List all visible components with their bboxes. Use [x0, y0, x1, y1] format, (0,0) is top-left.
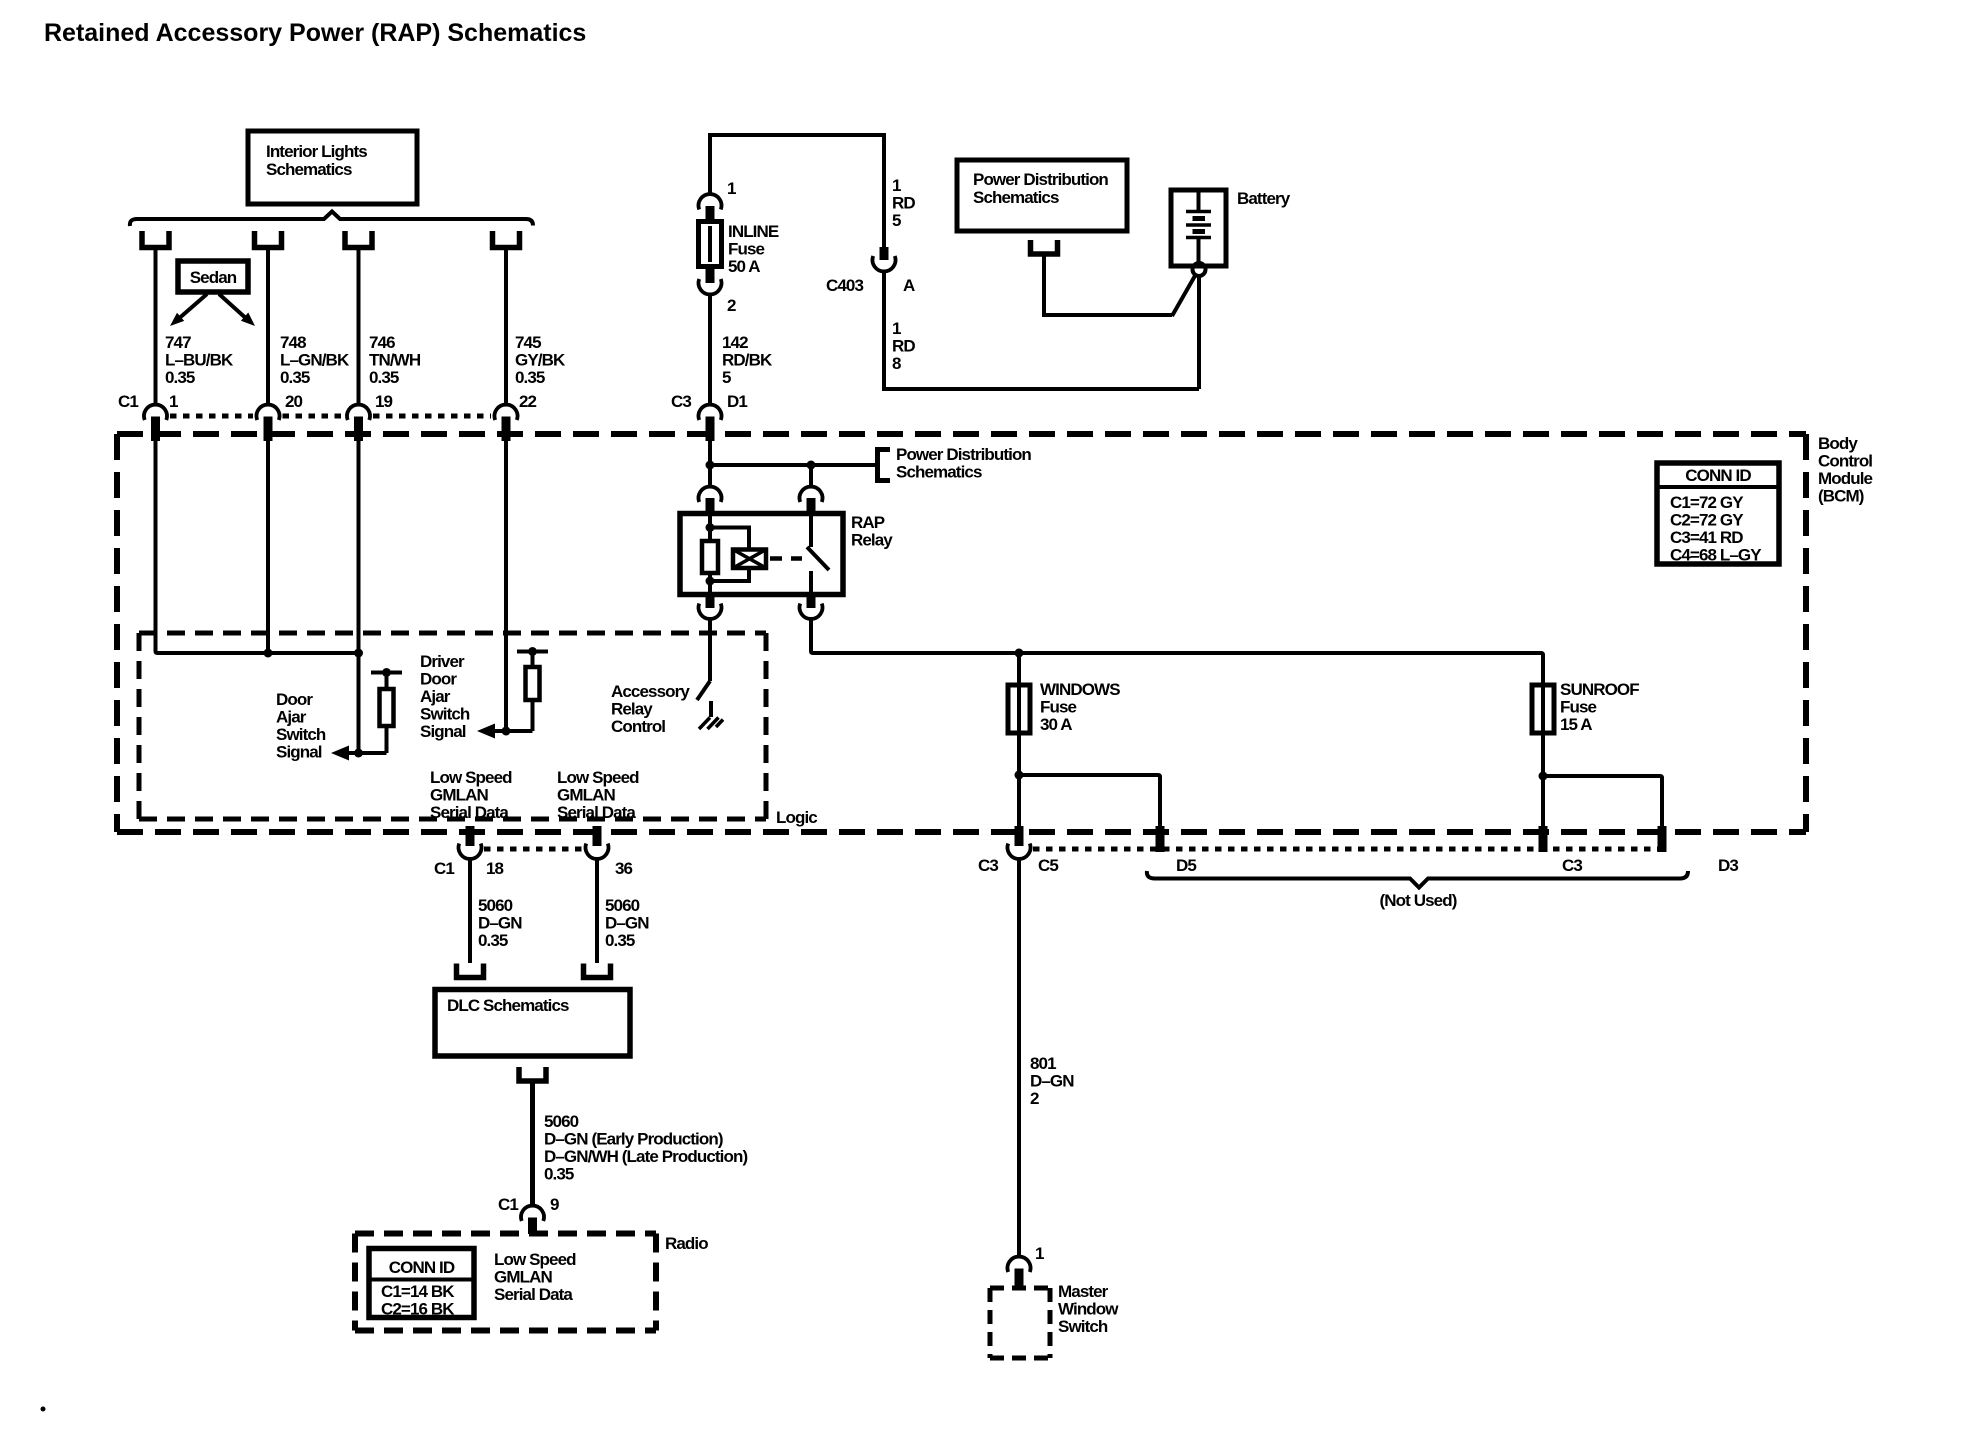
svg-text:Sedan: Sedan — [190, 268, 237, 287]
svg-text:50 A: 50 A — [728, 257, 760, 276]
junction node at 710,465 — [706, 461, 715, 470]
brace under Interior Lights box — [130, 212, 533, 227]
svg-text:GMLAN: GMLAN — [557, 786, 615, 805]
svg-text:1: 1 — [892, 176, 901, 195]
svg-text:RD: RD — [892, 194, 915, 213]
BCM dashed box top edge — [117, 431, 1806, 437]
svg-text:Fuse: Fuse — [1560, 698, 1597, 717]
wire branch to D5 — [1019, 775, 1160, 831]
bracket for Power Distribution Schematics — [878, 450, 891, 481]
Radio dashed box left edge — [352, 1234, 358, 1331]
svg-text:Low Speed: Low Speed — [430, 768, 512, 787]
connector C5 cup — [1008, 844, 1031, 859]
wire 142 RD/BK — [708, 294, 712, 405]
Master Window Switch dashed box bottom edge — [990, 1356, 1050, 1361]
accessory relay control switch blade — [697, 681, 710, 700]
connector C1 pin 1 stub — [151, 417, 160, 442]
inline fuse F1 50A body — [699, 222, 722, 267]
wire 5060 right — [595, 859, 599, 963]
relay switch pin half-circle — [799, 487, 822, 502]
svg-text:2: 2 — [727, 296, 736, 315]
svg-text:L–GN/BK: L–GN/BK — [280, 351, 350, 370]
label wire 745 GY/BK 0.35 — [515, 333, 566, 387]
relay switch output cup — [799, 604, 822, 619]
label Driver Door Ajar Switch Signal — [420, 652, 470, 741]
windows fuse F2 body — [1008, 685, 1030, 733]
wire branch to D3 — [1543, 776, 1662, 831]
svg-text:22: 22 — [519, 392, 537, 411]
svg-text:5060: 5060 — [544, 1112, 579, 1131]
svg-text:0.35: 0.35 — [515, 368, 545, 387]
svg-text:1: 1 — [892, 319, 901, 338]
label Low Speed GMLAN Serial Data (right) — [557, 768, 639, 822]
wire accessory relay control — [708, 619, 712, 681]
wire from C3 D1 to relay — [708, 436, 712, 487]
svg-text:TN/WH: TN/WH — [369, 351, 421, 370]
svg-text:1: 1 — [727, 179, 736, 198]
wire 5060 to radio — [530, 1081, 535, 1205]
svg-text:2: 2 — [1030, 1089, 1039, 1108]
RAP relay K1 box — [680, 514, 843, 595]
connector plug terminal 22 (Interior Lights) — [493, 231, 520, 248]
svg-text:Signal: Signal — [276, 743, 322, 762]
svg-text:A: A — [903, 276, 915, 295]
svg-text:Schematics: Schematics — [896, 463, 982, 482]
relay resistor — [702, 541, 718, 573]
svg-text:Master: Master — [1058, 1282, 1109, 1301]
Radio dashed box top edge — [355, 1231, 656, 1237]
Master Window Switch dashed box right edge — [1048, 1288, 1053, 1358]
connector C3 pin D1 half-circle — [699, 405, 722, 420]
svg-text:D1: D1 — [727, 392, 747, 411]
svg-text:C1: C1 — [434, 859, 454, 878]
svg-text:5: 5 — [892, 211, 901, 230]
relay coil wire bottom — [708, 573, 712, 595]
svg-text:D5: D5 — [1176, 856, 1196, 875]
connector plug below Power Distribution box — [1031, 240, 1058, 254]
svg-text:8: 8 — [892, 354, 901, 373]
svg-text:Interior Lights: Interior Lights — [266, 142, 367, 161]
label Power Distribution Schematics (inside BCM) — [896, 445, 1031, 482]
svg-text:Ajar: Ajar — [420, 687, 451, 706]
svg-text:Relay: Relay — [851, 531, 893, 550]
Master Window Switch dashed box top edge — [990, 1286, 1050, 1291]
battery switch blade — [1172, 274, 1196, 316]
box: Interior Lights Schematics — [248, 131, 417, 204]
Logic dashed box right edge — [764, 633, 769, 819]
svg-text:Low Speed: Low Speed — [557, 768, 639, 787]
svg-text:C1=72 GY: C1=72 GY — [1670, 493, 1744, 512]
wire from Power Distribution plug to battery switch — [1044, 254, 1172, 315]
wire 801 D-GN to master window switch — [1017, 859, 1021, 1256]
svg-text:D–GN (Early Production): D–GN (Early Production) — [544, 1130, 723, 1149]
connector half-circle above inline fuse — [699, 194, 722, 209]
stub below inline fuse — [706, 266, 715, 283]
relay actuation dashed link — [770, 556, 802, 561]
connector plug terminal 1 (Interior Lights) — [142, 231, 169, 248]
ground (chassis) — [699, 718, 723, 730]
resistor R1 (door ajar pull-up) — [359, 668, 403, 753]
stray period mark — [41, 1407, 46, 1412]
label Low Speed GMLAN Serial Data (radio) — [494, 1250, 576, 1304]
wire 746 inside BCM — [357, 436, 361, 753]
svg-text:Retained Accessory Power (RAP): Retained Accessory Power (RAP) Schematic… — [44, 19, 586, 47]
svg-text:D3: D3 — [1718, 856, 1738, 875]
sunroof fuse F3 body — [1532, 685, 1554, 733]
svg-text:GY/BK: GY/BK — [515, 351, 566, 370]
svg-text:Radio: Radio — [665, 1234, 708, 1253]
connector C1 pin 19 half-circle — [347, 405, 370, 420]
label 5060 D-GN 0.35 (right) — [605, 896, 649, 950]
svg-text:1: 1 — [169, 392, 178, 411]
label INLINE Fuse 50 A — [728, 222, 779, 276]
door ajar switch signal arrow — [331, 746, 359, 761]
resistor R2 (driver door ajar pull-up) — [506, 647, 548, 731]
connector C1 pin 1 half-circle — [144, 405, 167, 420]
svg-text:D–GN: D–GN — [605, 914, 649, 933]
label wire 1 RD 8 — [892, 319, 915, 373]
label wire 747 L-BU/BK 0.35 — [165, 333, 234, 387]
svg-text:Battery: Battery — [1237, 189, 1291, 208]
label Master Window Switch — [1058, 1282, 1119, 1336]
connector C1 pin 9 half-circle — [521, 1206, 544, 1221]
svg-text:GMLAN: GMLAN — [494, 1268, 552, 1287]
relay coil link bottom — [710, 568, 749, 582]
svg-text:Driver: Driver — [420, 652, 465, 671]
wire from C403 to battery — [884, 271, 1199, 389]
junction node driver door ajar — [502, 727, 511, 736]
svg-text:C2=72 GY: C2=72 GY — [1670, 511, 1744, 530]
svg-text:Switch: Switch — [276, 725, 326, 744]
wire from relay switch to fuses rail — [811, 619, 1543, 685]
connector C1 pin 20 stub — [264, 417, 273, 442]
svg-text:(Not Used): (Not Used) — [1380, 891, 1457, 910]
svg-text:D–GN: D–GN — [1030, 1072, 1074, 1091]
driver door ajar switch signal arrow — [477, 724, 506, 739]
wire 747 (top) — [154, 247, 158, 405]
svg-text:15 A: 15 A — [1560, 715, 1592, 734]
Logic dashed box left edge — [137, 633, 142, 819]
wire 748 (top) — [266, 247, 270, 405]
svg-text:RD: RD — [892, 337, 915, 356]
wire branch to Power Distribution Schematics (inside BCM) — [710, 463, 877, 467]
svg-text:Fuse: Fuse — [728, 240, 765, 259]
label Sedan — [178, 261, 248, 292]
connector D5 stub — [1156, 826, 1165, 852]
svg-text:Door: Door — [276, 690, 313, 709]
svg-text:C3=41 RD: C3=41 RD — [1670, 528, 1743, 547]
svg-text:C3: C3 — [978, 856, 998, 875]
svg-text:C2=16 BK: C2=16 BK — [381, 1300, 455, 1319]
wire 747 inside BCM — [156, 436, 359, 653]
svg-text:Body: Body — [1818, 434, 1858, 453]
svg-text:Schematics: Schematics — [973, 188, 1059, 207]
label wire 746 TN/WH 0.35 — [369, 333, 421, 387]
wire 745 inside BCM — [504, 436, 508, 731]
wire 745 (top) — [504, 247, 508, 405]
svg-text:747: 747 — [165, 333, 191, 352]
battery terminal circle — [1193, 263, 1206, 276]
connector pin 36 stub — [593, 826, 602, 846]
junction node sunroof branch — [1539, 772, 1548, 781]
label RAP Relay — [851, 513, 893, 550]
connector pin 36 cup — [586, 844, 609, 859]
svg-text:Signal: Signal — [420, 722, 466, 741]
svg-text:C3: C3 — [1562, 856, 1582, 875]
svg-text:18: 18 — [486, 859, 504, 878]
svg-text:746: 746 — [369, 333, 395, 352]
svg-text:C4=68 L–GY: C4=68 L–GY — [1670, 546, 1762, 565]
svg-text:0.35: 0.35 — [544, 1165, 574, 1184]
box: DLC Schematics — [435, 990, 630, 1057]
svg-text:Power Distribution: Power Distribution — [896, 445, 1031, 464]
svg-text:DLC Schematics: DLC Schematics — [447, 996, 569, 1015]
dotted connector line segment 20-19 — [283, 414, 345, 419]
label Door Ajar Switch Signal — [276, 690, 326, 762]
BCM dashed box left edge — [114, 434, 120, 832]
relay coil box with X — [733, 550, 766, 569]
svg-text:D–GN/WH (Late Production): D–GN/WH (Late Production) — [544, 1147, 747, 1166]
connector C1 pin 20 half-circle — [256, 405, 279, 420]
svg-text:Control: Control — [1818, 452, 1872, 471]
connector plug into DLC (left) — [457, 964, 484, 978]
svg-text:Module: Module — [1818, 469, 1873, 488]
accessory relay control lower stub — [709, 701, 713, 717]
svg-text:Schematics: Schematics — [266, 160, 352, 179]
junction node windows branch — [1015, 771, 1024, 780]
relay switch pin stub — [807, 498, 816, 514]
wire below sunroof fuse — [1541, 733, 1545, 831]
svg-text:20: 20 — [285, 392, 303, 411]
dotted connector line bottom right — [1033, 847, 1666, 852]
label wire 748 L-GN/BK 0.35 — [280, 333, 350, 387]
wire 746 (top) — [357, 247, 361, 405]
connector C1 pin 18 cup — [459, 844, 482, 859]
junction node rail/windows fuse — [1015, 649, 1024, 658]
svg-text:D–GN: D–GN — [478, 914, 522, 933]
relay coil link top — [710, 528, 749, 550]
dotted connector line segment 1-20 — [170, 414, 253, 419]
relay coil pin half-circle — [699, 487, 722, 502]
connector pin 1 half-circle (master window switch) — [1008, 1257, 1031, 1272]
svg-text:CONN ID: CONN ID — [1685, 466, 1751, 485]
connector C3 stub (sunroof) — [1539, 826, 1548, 852]
svg-text:9: 9 — [550, 1195, 559, 1214]
svg-text:GMLAN: GMLAN — [430, 786, 488, 805]
svg-text:(BCM): (BCM) — [1818, 487, 1864, 506]
wire from inline fuse top to battery branch — [710, 135, 884, 247]
svg-text:745: 745 — [515, 333, 541, 352]
connector plug into DLC (right) — [584, 964, 611, 978]
label wire 142 RD/BK 5 — [722, 333, 773, 387]
relay switch output stub — [807, 594, 816, 608]
connector pin 1 stub (master window switch) — [1015, 1269, 1024, 1289]
relay junction bottom — [706, 577, 715, 586]
svg-text:Ajar: Ajar — [276, 708, 307, 727]
battery G1 — [1171, 190, 1226, 266]
svg-text:RD/BK: RD/BK — [722, 351, 773, 370]
Logic dashed box bottom edge — [139, 817, 766, 822]
svg-text:142: 142 — [722, 333, 748, 352]
svg-text:C3: C3 — [671, 392, 691, 411]
wire below windows fuse — [1017, 733, 1021, 831]
svg-text:0.35: 0.35 — [280, 368, 310, 387]
svg-text:801: 801 — [1030, 1054, 1056, 1073]
relay switch lower wire — [809, 571, 813, 595]
connector C403 cup — [873, 256, 896, 271]
junction node door ajar — [354, 749, 363, 758]
svg-text:Power Distribution: Power Distribution — [973, 170, 1108, 189]
connector C403 stub — [880, 247, 889, 260]
CONN ID table (BCM) — [1657, 463, 1779, 565]
brace (Not Used) — [1147, 871, 1688, 888]
svg-text:Switch: Switch — [1058, 1317, 1108, 1336]
svg-text:19: 19 — [375, 392, 393, 411]
label SUNROOF Fuse 15 A — [1560, 680, 1639, 734]
svg-text:5: 5 — [722, 368, 731, 387]
relay switch blade — [807, 547, 829, 570]
relay coil wire top — [708, 514, 712, 541]
arrow from Sedan to wire 747 — [170, 294, 207, 326]
svg-text:0.35: 0.35 — [165, 368, 195, 387]
stub above inline fuse — [706, 206, 715, 222]
connector plug below DLC box — [519, 1067, 546, 1081]
dotted connector line segment 19-22 — [373, 414, 491, 419]
svg-text:C1: C1 — [498, 1195, 518, 1214]
svg-text:INLINE: INLINE — [728, 222, 779, 241]
wire 5060 left — [468, 859, 472, 963]
relay coil pin stub — [706, 498, 715, 514]
relay junction top — [706, 523, 715, 532]
connector plug terminal 20 (Interior Lights) — [255, 231, 282, 248]
connector C1 pin 22 stub — [502, 417, 511, 442]
connector plug terminal 19 (Interior Lights) — [345, 231, 372, 248]
svg-text:0.35: 0.35 — [605, 931, 635, 950]
svg-text:Serial Data: Serial Data — [494, 1285, 573, 1304]
svg-text:Relay: Relay — [611, 700, 653, 719]
Logic dashed box top edge — [139, 631, 766, 636]
label 5060 D-GN 0.35 (left) — [478, 896, 522, 950]
relay switch contact wire — [809, 514, 813, 547]
svg-text:748: 748 — [280, 333, 306, 352]
svg-text:Low Speed: Low Speed — [494, 1250, 576, 1269]
svg-text:C1=14 BK: C1=14 BK — [381, 1282, 455, 1301]
junction node at 811,465 — [807, 461, 816, 470]
Radio dashed box right edge — [653, 1234, 659, 1331]
svg-text:Accessory: Accessory — [611, 682, 690, 701]
connector C3 pin D1 stub — [706, 417, 715, 442]
connector C1 pin 19 stub — [354, 417, 363, 442]
label Low Speed GMLAN Serial Data (left) — [430, 768, 512, 822]
box: Power Distribution Schematics (top) — [957, 160, 1127, 231]
svg-text:Window: Window — [1058, 1300, 1119, 1319]
svg-text:RAP: RAP — [851, 513, 885, 532]
connector cup below inline fuse — [699, 279, 722, 294]
connector C5 stub (windows) — [1015, 826, 1024, 846]
svg-text:Control: Control — [611, 717, 665, 736]
svg-text:30 A: 30 A — [1040, 715, 1072, 734]
arrow from Sedan to wire 748 — [219, 294, 255, 326]
svg-text:CONN ID: CONN ID — [389, 1258, 455, 1277]
label WINDOWS Fuse 30 A — [1040, 680, 1120, 734]
svg-text:5060: 5060 — [605, 896, 640, 915]
svg-text:Door: Door — [420, 670, 457, 689]
junction node wire748/747 — [264, 649, 273, 658]
svg-text:C5: C5 — [1038, 856, 1058, 875]
label Body Control Module (BCM) — [1818, 434, 1873, 506]
label wire 801 D-GN 2 — [1030, 1054, 1074, 1108]
Master Window Switch dashed box left edge — [988, 1288, 993, 1358]
connector D3 stub — [1658, 826, 1667, 852]
relay coil output cup — [699, 604, 722, 619]
BCM dashed box bottom edge — [117, 829, 1806, 835]
connector C1 pin 9 stub — [528, 1218, 537, 1235]
svg-text:0.35: 0.35 — [369, 368, 399, 387]
label wire 1 RD 5 — [892, 176, 915, 230]
wire from junction to relay switch pin — [809, 465, 813, 487]
svg-text:36: 36 — [615, 859, 633, 878]
svg-text:0.35: 0.35 — [478, 931, 508, 950]
svg-text:C403: C403 — [826, 276, 863, 295]
wire rail down to windows fuse — [1017, 653, 1021, 685]
svg-text:L–BU/BK: L–BU/BK — [165, 351, 234, 370]
svg-text:Serial Data: Serial Data — [430, 803, 509, 822]
relay coil output stub — [706, 594, 715, 608]
svg-text:Switch: Switch — [420, 705, 470, 724]
svg-text:C1: C1 — [118, 392, 138, 411]
svg-text:SUNROOF: SUNROOF — [1560, 680, 1639, 699]
wire 748 inside BCM — [266, 436, 270, 653]
wire from battery terminal down — [1197, 276, 1201, 389]
label 5060 D-GN production wire — [544, 1112, 747, 1184]
svg-text:Logic: Logic — [776, 808, 817, 827]
BCM dashed box right edge — [1803, 434, 1809, 832]
svg-text:Fuse: Fuse — [1040, 698, 1077, 717]
CONN ID table (radio) — [369, 1249, 474, 1319]
connector C1 pin 22 half-circle — [495, 405, 518, 420]
svg-text:WINDOWS: WINDOWS — [1040, 680, 1120, 699]
Radio dashed box bottom edge — [355, 1328, 656, 1334]
junction node wire746/747 — [354, 649, 363, 658]
svg-text:1: 1 — [1035, 1244, 1044, 1263]
connector C1 pin 18 stub — [466, 826, 475, 846]
label Accessory Relay Control — [611, 682, 690, 736]
dotted connector line 18-36 — [484, 847, 584, 852]
svg-text:5060: 5060 — [478, 896, 513, 915]
